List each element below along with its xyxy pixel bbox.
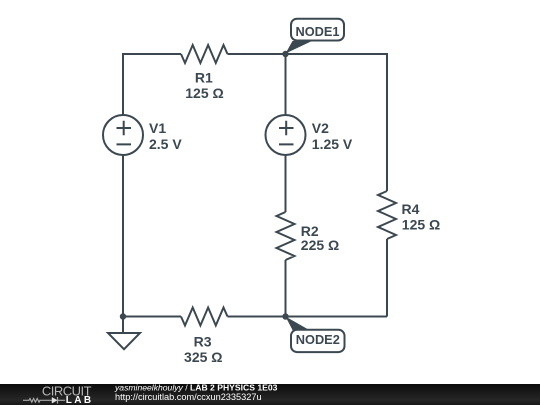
svg-text:V2: V2: [312, 120, 329, 136]
svg-text:125 Ω: 125 Ω: [402, 217, 440, 233]
svg-text:225 Ω: 225 Ω: [301, 237, 339, 253]
svg-text:125 Ω: 125 Ω: [185, 85, 223, 101]
svg-text:LAB: LAB: [66, 395, 94, 405]
svg-text:R1: R1: [195, 69, 213, 85]
svg-text:V1: V1: [149, 120, 166, 136]
svg-text:NODE1: NODE1: [295, 24, 339, 39]
svg-text:2.5 V: 2.5 V: [149, 136, 182, 152]
svg-text:1.25 V: 1.25 V: [312, 136, 353, 152]
svg-text:325 Ω: 325 Ω: [184, 349, 222, 365]
svg-text:R3: R3: [194, 333, 212, 349]
svg-text:NODE2: NODE2: [296, 332, 340, 347]
svg-text:R4: R4: [402, 201, 420, 217]
svg-text:http://circuitlab.com/ccxun233: http://circuitlab.com/ccxun2335327u: [115, 392, 262, 402]
